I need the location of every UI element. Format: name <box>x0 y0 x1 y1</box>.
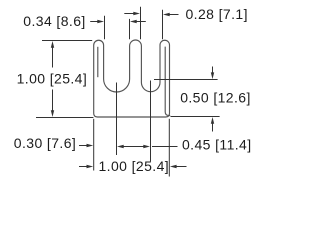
0.30 row arrow line <box>79 145 88 147</box>
left 1.00 up arrow tip y=40.9 <box>51 41 54 48</box>
svg-text:0.34 [8.6]: 0.34 [8.6] <box>23 13 85 29</box>
right 0.50: arrow stems <box>212 67 214 76</box>
0.34 left-pointing at ext x=129.5 <box>130 20 137 23</box>
left 1.00: top extension <box>42 40 92 42</box>
part outline: fuse clip body <box>94 40 170 117</box>
1.00 bottom right-pointing at ext x=93.7 <box>87 165 94 168</box>
svg-text:0.45 [11.4]: 0.45 [11.4] <box>182 137 252 153</box>
0.28 left-pointing at ext x=162.5 <box>163 13 170 16</box>
dim 0.28: extension lines <box>140 7 142 40</box>
0.45 right-pointing at ext x=150.5 <box>143 145 150 148</box>
0.30 right-pointing at ext x=93.7 <box>87 144 94 147</box>
dim 0.34: arrow lines <box>90 21 100 23</box>
0.45 left-pointing at ext x=116.5 <box>117 145 124 148</box>
0.45 row line toward text <box>152 146 178 148</box>
0.50 down arrow tip y=79.1 <box>211 72 214 79</box>
1.00 bottom left-pointing at ext x=170.9 <box>170 165 177 168</box>
left 1.00: arrow stems <box>52 45 54 68</box>
dim 0.28: arrow lines <box>124 13 138 15</box>
right 0.50: bottom extension <box>171 116 220 118</box>
0.34 right-pointing at ext x=104.5 <box>97 20 104 23</box>
inner surface line right leg <box>165 47 170 116</box>
svg-text:1.00 [25.4]: 1.00 [25.4] <box>17 71 88 87</box>
left 1.00: bottom extension <box>36 117 93 119</box>
0.50 up arrow tip y=117 <box>211 117 214 124</box>
0.28 right-pointing at ext x=140.5 <box>133 12 140 15</box>
1.00 bottom right arrow line <box>176 166 187 168</box>
svg-text:0.28 [7.1]: 0.28 [7.1] <box>186 6 248 22</box>
svg-text:1.00 [25.4]: 1.00 [25.4] <box>99 158 170 174</box>
svg-text:0.50 [12.6]: 0.50 [12.6] <box>180 89 251 105</box>
1.00 bottom left arrow line <box>79 166 88 168</box>
inner surface line left leg <box>97 47 99 77</box>
svg-text:0.30 [7.6]: 0.30 [7.6] <box>14 135 76 151</box>
bottom: extension verticals <box>93 119 95 171</box>
0.45 row line between slot centers <box>123 146 145 148</box>
dim 0.34: extension lines <box>104 16 106 40</box>
left 1.00 down arrow tip y=116.9 <box>51 110 54 117</box>
right 0.50: top extension <box>154 79 218 81</box>
